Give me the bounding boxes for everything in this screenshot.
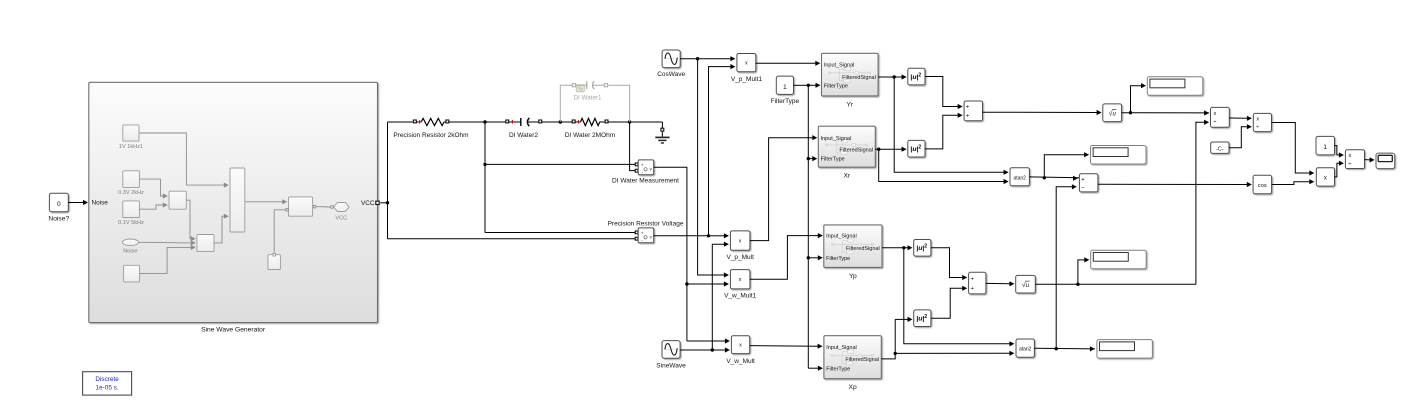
wire V_p_Mult up to Xr Input_Signal [750,138,813,241]
svg-text:x: x [1324,176,1327,182]
divide block 2 [1253,113,1271,131]
subsystem Yp [824,225,882,268]
sum block real channel [964,101,982,121]
wire Precision Resistor Voltage signal [654,235,709,237]
svg-text:VCC: VCC [335,216,347,222]
svg-text:Discrete: Discrete [95,376,119,383]
scope block [1376,153,1395,169]
wire SineWave to V_w_Mult in2 [680,349,712,351]
inner block 0.3V 2kHz [123,171,140,188]
wire junction up to display phase real [1044,155,1084,178]
wire |u|2 Xp to sum p [931,288,963,318]
wire cos out to product in2 [1272,182,1310,185]
svg-text:Input_Signal: Input_Signal [826,234,857,240]
inner block unnamed [124,265,140,282]
wire constant 1 to divide3 in1 [1335,146,1340,155]
svg-text:FilterType: FilterType [824,83,848,89]
svg-text:x: x [739,239,742,245]
inner wire mux to output block [245,201,283,203]
voltage sensor Precision Resistor Voltage [635,231,638,234]
wire FilterType trunk down [807,85,809,368]
wire atan2 p out junction [1034,347,1095,350]
svg-text:÷: ÷ [1348,161,1351,167]
wire Xp to atan2p in2 [895,352,1010,354]
wire Yr down to atan2 in1 [894,77,1004,172]
svg-text:x: x [1348,153,1351,159]
wire sqrt up to display magnitude real [1131,86,1142,113]
wire atan2 p up to subtract minus [1056,187,1072,349]
svg-text:Input_Signal: Input_Signal [821,136,852,142]
product V_w_Mult1 [730,270,750,289]
wire Xp FilteredSignal out [881,319,895,359]
subsystem Sine Wave Generator [89,82,378,322]
voltage sensor DI Water Measurement [635,163,638,166]
wire node A to Precision Resistor Voltage plus [485,232,635,234]
svg-text:FilteredSignal: FilteredSignal [846,246,880,252]
svg-text:VCC: VCC [361,200,375,207]
wire sqrt p up to divide1 in2 [1196,122,1205,284]
inner output subsystem block [289,197,313,216]
wire sum p to sqrt p [986,282,1010,284]
wire VCC to resistor [388,121,414,123]
svg-text:x: x [739,343,742,349]
wire DI water signal to V_w_Mult1 in2 [687,283,725,285]
wire resistor to node A [449,121,506,123]
svg-text:Xp: Xp [849,384,857,391]
subtract block phase difference [1079,174,1098,192]
svg-text:V_w_Mult: V_w_Mult [726,358,755,365]
wire VCC node vertical [380,202,387,204]
display magnitude real [1147,77,1203,96]
wire divide3 to scope [1365,159,1371,161]
product V_w_Mult [731,336,749,354]
inner VCC hexagon tag [334,203,350,212]
source CosWave [662,50,680,68]
commented capacitor DI Water1 (grayed) [560,85,572,122]
svg-text:+: + [641,231,644,236]
svg-text:+: + [641,163,644,168]
svg-text:Precision Resistor 2kOhm: Precision Resistor 2kOhm [393,132,468,139]
math |u|2 block Yp [914,240,931,257]
inner mux block [230,168,245,232]
wire Xr FilteredSignal out [875,148,905,150]
wire FilterType to Yr FilterType [794,84,809,86]
wire DI water signal to V_w_Mult in1 [687,340,726,342]
constant -C- [1211,142,1229,153]
svg-text:FilteredSignal: FilteredSignal [842,75,876,81]
svg-text:Input_Signal: Input_Signal [826,345,857,351]
svg-text:0.3V 2kHz: 0.3V 2kHz [118,190,144,196]
svg-text:FilterType: FilterType [826,366,850,372]
svg-text:DI Water1: DI Water1 [573,95,602,102]
svg-text:1e-05 s.: 1e-05 s. [96,385,119,392]
svg-text:0.1V 5kHz: 0.1V 5kHz [118,220,144,226]
inner wire top-port block up to output block [286,208,289,211]
wire VCC node to Precision Resistor Voltage minus [388,238,636,240]
svg-text:+: + [966,105,970,111]
capacitor DI Water2 [506,120,509,123]
wire junction up to display magnitude p [1078,260,1085,284]
wire V_w_Mult to Xp Input_Signal [750,345,818,348]
svg-text:-C-: -C- [1216,146,1224,152]
inner wire output block to VCC hexagon [313,205,316,208]
wire V_w_Mult1 up to Yp Input_Signal [750,236,818,280]
inner block with top port [268,255,280,270]
svg-text:SineWave: SineWave [656,362,686,369]
svg-text:1: 1 [783,84,787,91]
svg-text:÷: ÷ [1213,120,1216,126]
wire divide1 out to divide2 [1229,117,1247,119]
source SineWave [662,341,680,359]
svg-text:Precision Resistor Voltage: Precision Resistor Voltage [608,220,684,227]
product V_p_Mult [730,231,750,250]
output port square VCC on subsystem edge [376,201,379,204]
wire Xr down to atan2 in2 [879,149,1004,181]
constant FilterType value 1 [776,76,793,94]
inner wire unnamed block to sum2 [140,247,192,273]
wire -C- to divide2 in2 [1229,127,1247,148]
wire Yp FilteredSignal out [882,247,911,249]
wire DI Water Measurement signal [654,167,687,341]
node B junction [559,120,562,123]
ground node junction [628,120,631,123]
svg-text:√u: √u [1022,281,1030,289]
inner wire 0.1V to sum1 [139,205,163,209]
constant 1 final [1316,136,1335,155]
inner sum block 2 [197,235,214,252]
inner block 0.1V 5kHz [123,201,140,218]
svg-text:atan2: atan2 [1013,175,1026,181]
display magnitude p [1091,250,1147,269]
product V_p_Mult1 [737,54,756,72]
svg-text:√u: √u [1109,109,1117,117]
svg-text:%: % [578,87,583,93]
display phase p [1097,340,1153,359]
wire resistor voltage to V_p_Mult in1 [709,235,725,237]
svg-text:Sine Wave Generator: Sine Wave Generator [201,327,266,334]
wire capacitor to node B [542,121,573,123]
svg-text:cos: cos [1258,183,1267,189]
wire subtract out to cos [1098,183,1247,185]
wire |u|2 Yr to sum [925,77,958,107]
svg-text:FilterType: FilterType [771,98,800,105]
wire junction to subtract plus [1073,176,1078,181]
wire node A down and across to DI Water Measurement plus [484,122,486,233]
annotation Discrete 1e-05 s [83,372,132,395]
atan2 block p channel [1016,339,1034,357]
wire CosWave down to V_w_Mult1 in1 [698,59,725,275]
resistor DI Water 2MOhm [572,120,575,123]
svg-text:1V 1kHz1: 1V 1kHz1 [119,144,143,150]
svg-text:+: + [971,276,975,282]
svg-text:x: x [745,61,748,67]
wire divide2 out down to product [1272,123,1310,174]
product block final [1316,168,1334,186]
node A junction [483,120,486,123]
svg-text:x: x [1214,111,1217,117]
svg-text:CosWave: CosWave [657,71,685,78]
svg-text:Xr: Xr [843,173,850,180]
constant Noise? value 0 [49,193,68,211]
svg-text:Yr: Yr [846,101,853,108]
wire ground-node down to DI Water Measurement minus [630,122,636,171]
svg-text:FilteredSignal: FilteredSignal [839,147,873,153]
inner source Noise ellipse [122,239,138,246]
wire |u|2 Yp to sum p [931,248,963,278]
subsystem Yr [822,53,879,96]
svg-text:DI Water 2MOhm: DI Water 2MOhm [565,132,615,139]
svg-text:Noise?: Noise? [48,216,69,223]
resistor Precision Resistor 2kOhm [413,120,416,123]
wire sqrt p out junction [1035,283,1196,285]
svg-text:x: x [739,277,742,283]
svg-text:V_p_Mult1: V_p_Mult1 [731,76,762,83]
wire atan2 out to junction [1029,176,1079,179]
svg-text:FilteredSignal: FilteredSignal [845,357,879,363]
wire SineWave up to V_p_Mult in2 [712,244,724,350]
wire FilterType to Yp [808,257,818,259]
subsystem Xp [824,336,881,379]
inner sum block 1 [169,191,186,209]
wire FilterType to Xr [808,158,813,160]
sqrt block real channel [1103,104,1122,122]
wire CosWave to V_p_Mult1 in1 [680,58,697,60]
wire product to divide3 in2 [1335,163,1340,177]
divide block 3 [1345,150,1364,169]
wire Yr FilteredSignal out [878,76,905,78]
svg-text:FilterType: FilterType [821,157,845,163]
svg-text:x: x [1256,117,1259,123]
svg-text:atan2: atan2 [1019,347,1032,353]
svg-text:Input_Signal: Input_Signal [824,62,855,68]
ground [661,122,663,128]
wire 2MOhm to ground node [608,121,662,123]
sum block p channel [969,272,986,294]
svg-text:V_w_Mult1: V_w_Mult1 [724,293,757,300]
wire Yp down to atan2p in1 [904,248,1010,344]
wire |u|2 Xr to sum [925,115,958,149]
inner wire sum1 to sum2 [186,200,191,239]
atan2 block real channel [1010,168,1029,186]
divide block 1 [1211,107,1230,127]
sqrt block p channel [1016,275,1036,293]
trig cos block [1253,175,1272,194]
svg-text:Noise: Noise [92,200,109,207]
svg-text:V_p_Mult: V_p_Mult [726,254,754,261]
svg-text:DI Water2: DI Water2 [509,132,538,139]
wire sum to sqrt [983,111,1098,113]
subsystem Xr [818,126,875,167]
svg-text:+: + [971,286,975,292]
svg-text:1: 1 [1323,144,1327,151]
wire sqrt out junction [1122,112,1210,114]
inner wire 1V1kHz1 to mux [139,133,224,185]
display real phase [1091,146,1147,165]
svg-text:Yp: Yp [849,273,857,280]
svg-text:0: 0 [57,201,61,208]
wire V_p_Mult1 to Yr Input_Signal [756,62,816,64]
math |u|2 block Xr [908,140,925,157]
svg-text:FilterType: FilterType [826,256,850,262]
wire FilterType to Xp [808,367,818,369]
wire resistor voltage up to V_p_Mult1 in2 [709,67,731,236]
svg-text:÷: ÷ [1256,125,1259,131]
svg-text:Noise: Noise [123,248,137,254]
math |u|2 block Yr [908,68,925,85]
inner wire 0.3V to sum1 [139,179,163,196]
inner wire sum2 to mux [214,216,224,243]
svg-text:DI Water Measurement: DI Water Measurement [612,178,679,185]
math |u|2 block Xp [914,310,931,327]
inner block 1V 1kHz1 [123,125,139,141]
inner wire noise ellipse to sum2 [139,241,192,244]
wire Noise? to Sine Wave Generator [68,202,83,204]
svg-text:+: + [966,113,970,119]
